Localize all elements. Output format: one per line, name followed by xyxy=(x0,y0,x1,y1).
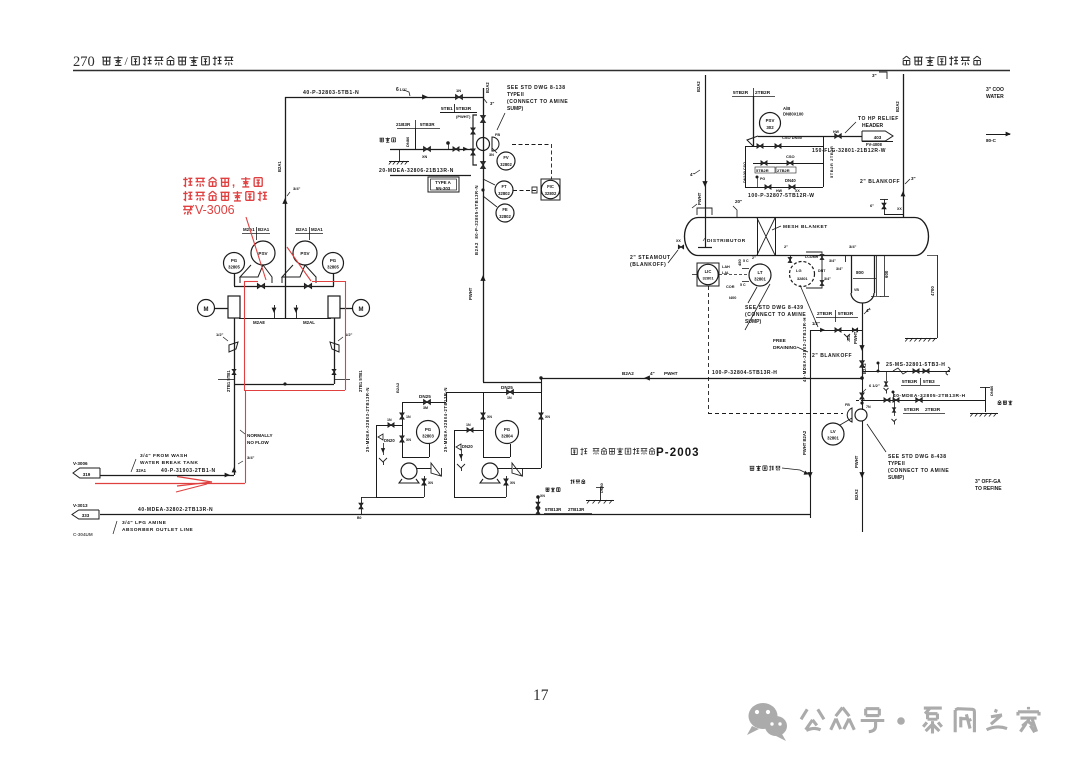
svg-text:LAH: LAH xyxy=(722,265,730,269)
svg-text:3/4": 3/4" xyxy=(849,244,857,249)
svg-text:DN40: DN40 xyxy=(785,178,796,183)
svg-text:1/2": 1/2" xyxy=(345,332,353,337)
svg-text:,: , xyxy=(232,177,235,189)
svg-text:DISTRIBUTOR: DISTRIBUTOR xyxy=(707,238,746,244)
svg-text:PG: PG xyxy=(231,258,238,263)
svg-text:3/4": 3/4" xyxy=(824,277,831,281)
svg-text:SUMP): SUMP) xyxy=(507,106,523,112)
svg-text:FT: FT xyxy=(501,184,507,189)
svg-text:HEADER: HEADER xyxy=(862,123,884,129)
svg-text:FB: FB xyxy=(495,133,500,137)
svg-text:5TB3R: 5TB3R xyxy=(456,106,472,112)
svg-text:3M: 3M xyxy=(423,406,428,410)
svg-text:TYPE: TYPE xyxy=(507,92,521,98)
svg-text:B2A2 80-P-32805-5TB13R-N: B2A2 80-P-32805-5TB13R-N xyxy=(474,185,479,255)
svg-text:PSV: PSV xyxy=(258,251,268,256)
svg-text:7N: 7N xyxy=(866,405,871,409)
svg-text:40-MDEA-32802-2TB13R-N: 40-MDEA-32802-2TB13R-N xyxy=(138,507,213,513)
svg-text:M: M xyxy=(359,307,364,313)
svg-text:100-P-32804-5TB13R-H: 100-P-32804-5TB13R-H xyxy=(712,370,777,376)
svg-text:XN: XN xyxy=(406,438,411,442)
svg-text:PWHT B2A2: PWHT B2A2 xyxy=(802,430,807,455)
svg-text:B2A2: B2A2 xyxy=(696,81,701,92)
svg-text:P-2003: P-2003 xyxy=(656,447,700,459)
svg-text:32801: 32801 xyxy=(754,277,766,282)
svg-text:3/4" LPG AMINE: 3/4" LPG AMINE xyxy=(122,520,167,526)
svg-text:XN: XN xyxy=(545,415,550,419)
svg-text:PWHT: PWHT xyxy=(664,371,678,376)
svg-text:3": 3" xyxy=(490,101,494,106)
svg-text:1N: 1N xyxy=(406,415,411,419)
svg-text:6": 6" xyxy=(870,203,874,208)
svg-text:TO HP RELIEF: TO HP RELIEF xyxy=(858,116,899,122)
svg-text:FV-4008: FV-4008 xyxy=(866,142,883,147)
svg-text:XX: XX xyxy=(897,207,902,211)
svg-text:B2A1: B2A1 xyxy=(277,161,282,172)
svg-text:2" STEAMOUT: 2" STEAMOUT xyxy=(630,255,671,261)
svg-text:25-MS-32801-5TB3-H: 25-MS-32801-5TB3-H xyxy=(886,362,945,368)
svg-text:M2A8: M2A8 xyxy=(253,320,265,325)
svg-text:3": 3" xyxy=(911,176,916,181)
svg-text:5TB2R: 5TB2R xyxy=(756,168,769,173)
svg-text:3/4": 3/4" xyxy=(829,259,836,263)
svg-text:V-3013: V-3013 xyxy=(73,503,88,508)
svg-text:TO REFINE: TO REFINE xyxy=(975,486,1002,492)
svg-text:B2A2: B2A2 xyxy=(622,371,634,376)
svg-text:40-MDEA-32805-2TB13R-H: 40-MDEA-32805-2TB13R-H xyxy=(893,393,966,399)
svg-text:2TB3R: 2TB3R xyxy=(817,311,833,317)
svg-text:(PWHT): (PWHT) xyxy=(456,114,471,119)
svg-text:302: 302 xyxy=(766,125,774,130)
svg-text:(CONNECT TO AMINE: (CONNECT TO AMINE xyxy=(507,99,568,105)
svg-text:4700: 4700 xyxy=(930,286,935,296)
svg-text:5TB3R: 5TB3R xyxy=(838,311,854,317)
svg-text:100-P-32807-5TB12R-W: 100-P-32807-5TB12R-W xyxy=(748,193,815,199)
svg-text:XN: XN xyxy=(487,415,492,419)
svg-text:VB: VB xyxy=(854,288,859,292)
svg-text:5TB13R: 5TB13R xyxy=(545,507,562,512)
svg-text:32A1: 32A1 xyxy=(136,468,147,473)
svg-text:1/2": 1/2" xyxy=(400,87,408,92)
svg-text:2TB1 5TB1: 2TB1 5TB1 xyxy=(226,370,231,392)
svg-text:NORMALLY: NORMALLY xyxy=(247,433,273,438)
svg-text:(CONNECT TO AMINE: (CONNECT TO AMINE xyxy=(745,312,806,318)
svg-text:SEE STD DWG 8-138: SEE STD DWG 8-138 xyxy=(507,85,566,91)
svg-text:M2A1: M2A1 xyxy=(311,227,323,232)
svg-text:(CONNECT TO AMINE: (CONNECT TO AMINE xyxy=(888,468,949,474)
svg-text:800: 800 xyxy=(856,270,864,275)
svg-text:CSO DN50: CSO DN50 xyxy=(782,135,803,140)
svg-text:XN: XN xyxy=(428,481,433,485)
svg-text:32801: 32801 xyxy=(702,276,714,281)
svg-text:PG: PG xyxy=(760,177,765,181)
svg-text:1N: 1N xyxy=(507,396,512,400)
svg-text:FE: FE xyxy=(502,207,508,212)
svg-text:XX: XX xyxy=(676,239,681,243)
svg-text:20": 20" xyxy=(735,199,742,204)
svg-text:25-MDEA-32803-2TB13R-N: 25-MDEA-32803-2TB13R-N xyxy=(365,387,370,452)
svg-text:COR: COR xyxy=(726,285,735,289)
svg-text:LAL: LAL xyxy=(722,271,730,275)
svg-text:B2A2: B2A2 xyxy=(485,82,490,93)
svg-text:5TB2R 2TB2R: 5TB2R 2TB2R xyxy=(829,145,834,178)
svg-text:LIC: LIC xyxy=(705,269,712,274)
svg-text:WATER BREAK TANK: WATER BREAK TANK xyxy=(140,460,198,466)
svg-text:PSV: PSV xyxy=(300,251,310,256)
svg-text:5N-303: 5N-303 xyxy=(436,186,451,191)
svg-text:600: 600 xyxy=(884,270,889,278)
svg-text:25-MDEA-32804-2TB13R-N: 25-MDEA-32804-2TB13R-N xyxy=(443,387,448,452)
svg-text:32804: 32804 xyxy=(501,434,513,439)
svg-text:32801: 32801 xyxy=(797,277,808,281)
svg-text:3/4": 3/4" xyxy=(293,186,301,191)
svg-text:PG: PG xyxy=(425,427,432,432)
svg-text:SUMP): SUMP) xyxy=(888,475,904,481)
svg-text:32802: 32802 xyxy=(499,214,511,219)
svg-text:FB: FB xyxy=(845,403,850,407)
svg-text:21B3R: 21B3R xyxy=(396,122,411,127)
svg-text:JBD: JBD xyxy=(847,334,851,342)
svg-text:C-304UM: C-304UM xyxy=(73,532,93,537)
svg-text:SEE STD DWG 8-438: SEE STD DWG 8-438 xyxy=(888,454,947,460)
svg-text:2" BLANKOFF: 2" BLANKOFF xyxy=(812,353,852,359)
svg-text:LCOMR: LCOMR xyxy=(805,255,819,259)
svg-text:SEE STD DWG 8-439: SEE STD DWG 8-439 xyxy=(745,305,804,311)
svg-text:TYPE A: TYPE A xyxy=(435,180,452,185)
svg-text:2TB3R: 2TB3R xyxy=(925,407,941,413)
svg-text:B2A2: B2A2 xyxy=(895,101,900,112)
svg-text:32802: 32802 xyxy=(500,162,512,167)
svg-text:2TB13R: 2TB13R xyxy=(568,507,585,512)
svg-text:MESH BLANKET: MESH BLANKET xyxy=(783,224,828,230)
svg-text:DN25: DN25 xyxy=(501,385,513,390)
svg-text:1/2": 1/2" xyxy=(216,332,224,337)
svg-text:3" COO: 3" COO xyxy=(986,87,1004,93)
svg-text:PWHT: PWHT xyxy=(853,331,858,344)
svg-text:2TB2R: 2TB2R xyxy=(755,90,771,96)
svg-text:PG: PG xyxy=(330,258,337,263)
svg-text:PSV: PSV xyxy=(766,118,775,123)
svg-text:5TB3R: 5TB3R xyxy=(420,122,435,127)
svg-text:32801: 32801 xyxy=(827,436,839,441)
svg-text:DN25: DN25 xyxy=(419,394,431,399)
svg-text:TYPE: TYPE xyxy=(888,461,902,467)
svg-text:2TB2R: 2TB2R xyxy=(777,168,790,173)
svg-text:5TB3R: 5TB3R xyxy=(904,407,920,413)
svg-text:3" OFF-GA: 3" OFF-GA xyxy=(975,479,1001,485)
svg-text:40-P-32803-5TB1-N: 40-P-32803-5TB1-N xyxy=(303,90,359,96)
svg-text:I400: I400 xyxy=(729,296,736,300)
svg-text:5 C: 5 C xyxy=(740,283,746,287)
svg-text:20-MDEA-32806-21B13R-N: 20-MDEA-32806-21B13R-N xyxy=(379,168,454,174)
svg-text:DN80: DN80 xyxy=(600,483,604,493)
svg-text:LG: LG xyxy=(796,268,802,273)
svg-text:5TB3: 5TB3 xyxy=(923,379,935,385)
svg-text:NO FLOW: NO FLOW xyxy=(247,440,269,445)
svg-text:450: 450 xyxy=(737,259,742,266)
svg-text:B2A1: B2A1 xyxy=(296,227,308,232)
svg-text:B2A2: B2A2 xyxy=(862,363,867,374)
svg-text:2": 2" xyxy=(784,244,788,249)
svg-text:M: M xyxy=(204,307,209,313)
svg-text:B2A2: B2A2 xyxy=(854,489,859,500)
svg-text:4": 4" xyxy=(690,172,695,177)
svg-text:DRAINING: DRAINING xyxy=(773,345,797,351)
svg-text:PWHT: PWHT xyxy=(854,455,859,468)
svg-text:B2A1: B2A1 xyxy=(258,227,270,232)
svg-text:1N: 1N xyxy=(466,423,471,427)
svg-text:B0: B0 xyxy=(357,516,362,520)
svg-text:319: 319 xyxy=(83,472,91,477)
svg-text:DN80: DN80 xyxy=(405,136,410,147)
svg-text:32805: 32805 xyxy=(228,265,240,270)
svg-text:270: 270 xyxy=(73,54,95,70)
svg-text:32805: 32805 xyxy=(327,265,339,270)
svg-text:4": 4" xyxy=(650,371,655,376)
svg-text:5TB1: 5TB1 xyxy=(441,106,453,112)
svg-text:DN80X100: DN80X100 xyxy=(783,112,804,117)
svg-text:DN100 CSO: DN100 CSO xyxy=(743,162,747,183)
svg-text:PWHT: PWHT xyxy=(468,287,473,300)
svg-text:32803: 32803 xyxy=(422,434,434,439)
svg-text:DN80: DN80 xyxy=(989,385,994,396)
svg-text:1N: 1N xyxy=(387,418,392,422)
svg-text:32802: 32802 xyxy=(498,191,510,196)
svg-text:M2AL: M2AL xyxy=(303,320,315,325)
svg-text:FREE: FREE xyxy=(773,338,787,344)
svg-text:LV: LV xyxy=(830,429,835,434)
svg-text:PWHT: PWHT xyxy=(697,192,702,205)
svg-text:V-3006: V-3006 xyxy=(195,203,235,217)
svg-text:403: 403 xyxy=(874,135,882,140)
svg-text:2" BLANKOFF: 2" BLANKOFF xyxy=(860,179,900,185)
svg-text:3/4" FROM WASH: 3/4" FROM WASH xyxy=(140,453,188,459)
svg-text:V-3006: V-3006 xyxy=(73,461,88,466)
svg-text:B2A2: B2A2 xyxy=(395,382,400,393)
svg-text:1/2": 1/2" xyxy=(812,321,820,326)
svg-text:2": 2" xyxy=(752,256,756,260)
svg-text:LT: LT xyxy=(757,270,762,275)
svg-text:3": 3" xyxy=(872,73,877,78)
svg-text:XN: XN xyxy=(422,155,428,159)
svg-text:333: 333 xyxy=(82,513,90,518)
svg-text:5TB3R: 5TB3R xyxy=(902,379,918,385)
svg-text:6 1/2": 6 1/2" xyxy=(869,383,880,388)
svg-text:HW: HW xyxy=(833,130,840,134)
svg-text:4": 4" xyxy=(866,308,871,313)
svg-text:32802: 32802 xyxy=(545,191,557,196)
svg-text:A/B: A/B xyxy=(783,106,790,111)
svg-text:3N: 3N xyxy=(489,153,494,157)
svg-text:2TB1 5TB1: 2TB1 5TB1 xyxy=(358,370,363,392)
svg-text:DN20: DN20 xyxy=(462,444,473,449)
svg-text:1N: 1N xyxy=(456,88,461,93)
svg-text:FIC: FIC xyxy=(547,184,554,189)
svg-text:5TB2R: 5TB2R xyxy=(733,90,749,96)
svg-text:80-C: 80-C xyxy=(986,138,997,143)
svg-text:WATER: WATER xyxy=(986,94,1004,100)
svg-text:XN: XN xyxy=(510,481,515,485)
svg-text:FV: FV xyxy=(503,155,509,160)
svg-text:3/4": 3/4" xyxy=(247,455,255,460)
svg-text:DN20: DN20 xyxy=(384,438,395,443)
svg-text:(BLANKOFF): (BLANKOFF) xyxy=(630,262,666,268)
svg-text:SUMP): SUMP) xyxy=(745,319,761,325)
svg-text:XN: XN xyxy=(540,494,545,498)
svg-text:CSO: CSO xyxy=(786,154,795,159)
svg-text:5 C: 5 C xyxy=(743,259,749,263)
svg-text:40-P-31903-2TB1-N: 40-P-31903-2TB1-N xyxy=(161,468,216,474)
svg-text:PG: PG xyxy=(504,427,511,432)
svg-text:17: 17 xyxy=(533,687,549,704)
svg-text:3/4": 3/4" xyxy=(836,267,843,271)
svg-text:ABSORBER OUTLET LINE: ABSORBER OUTLET LINE xyxy=(122,527,193,533)
